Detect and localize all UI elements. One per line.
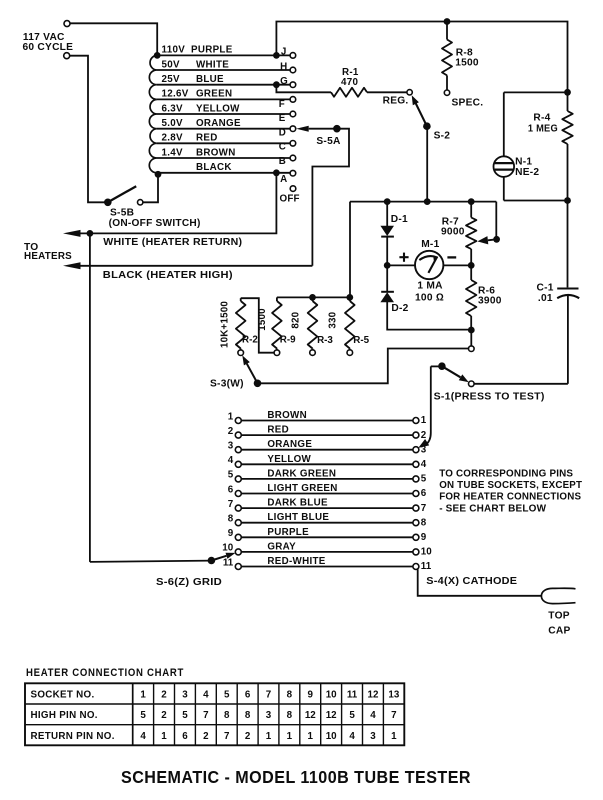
svg-text:7: 7 [203, 710, 209, 721]
svg-text:REG.: REG. [383, 95, 409, 106]
svg-text:RED: RED [267, 425, 289, 436]
svg-text:6: 6 [245, 690, 251, 701]
svg-text:BROWN: BROWN [267, 410, 307, 421]
svg-text:1 MA: 1 MA [417, 281, 443, 292]
svg-text:F: F [279, 99, 285, 110]
svg-text:4: 4 [140, 731, 146, 742]
svg-text:3: 3 [182, 690, 188, 701]
svg-text:4: 4 [349, 731, 355, 742]
svg-text:BLUE: BLUE [196, 74, 224, 85]
svg-text:2: 2 [421, 430, 427, 441]
svg-text:3: 3 [370, 731, 376, 742]
svg-text:6: 6 [421, 488, 427, 499]
svg-text:1500: 1500 [455, 57, 479, 68]
svg-text:ORANGE: ORANGE [267, 439, 312, 450]
svg-text:PURPLE: PURPLE [191, 45, 233, 56]
svg-text:110V: 110V [162, 45, 186, 56]
svg-text:DARK GREEN: DARK GREEN [267, 468, 336, 479]
svg-text:5.0V: 5.0V [162, 118, 184, 129]
svg-text:S-4(X) CATHODE: S-4(X) CATHODE [426, 576, 517, 587]
svg-text:S-5A: S-5A [316, 136, 341, 147]
svg-text:470: 470 [341, 77, 358, 88]
svg-text:WHITE: WHITE [196, 59, 229, 70]
svg-text:2: 2 [203, 731, 209, 742]
svg-text:PURPLE: PURPLE [267, 527, 309, 538]
svg-text:D-1: D-1 [391, 214, 408, 225]
svg-text:6: 6 [228, 484, 234, 495]
svg-text:BROWN: BROWN [196, 147, 236, 158]
svg-text:6.3V: 6.3V [162, 103, 184, 114]
svg-text:E: E [279, 113, 286, 124]
svg-text:6: 6 [182, 731, 188, 742]
svg-text:GREEN: GREEN [196, 89, 232, 100]
svg-text:YELLOW: YELLOW [196, 103, 240, 114]
svg-text:RED: RED [196, 133, 218, 144]
svg-text:10: 10 [326, 731, 337, 742]
svg-text:7: 7 [421, 503, 427, 514]
svg-text:11: 11 [421, 561, 432, 572]
svg-text:ON TUBE SOCKETS, EXCEPT: ON TUBE SOCKETS, EXCEPT [439, 480, 582, 491]
svg-text:9: 9 [228, 528, 234, 539]
svg-text:12.6V: 12.6V [162, 89, 189, 100]
svg-text:5: 5 [224, 690, 230, 701]
svg-text:25V: 25V [162, 74, 180, 85]
svg-text:10K+1500: 10K+1500 [219, 301, 230, 348]
svg-text:R-9: R-9 [280, 335, 296, 346]
svg-text:RETURN PIN NO.: RETURN PIN NO. [31, 731, 115, 742]
svg-text:HEATER CONNECTION CHART: HEATER CONNECTION CHART [26, 667, 184, 679]
svg-text:SOCKET NO.: SOCKET NO. [31, 690, 95, 701]
svg-text:12: 12 [305, 710, 316, 721]
svg-text:NE-2: NE-2 [515, 167, 539, 178]
svg-text:1500: 1500 [257, 308, 268, 331]
svg-text:4: 4 [421, 459, 427, 470]
svg-text:8: 8 [287, 710, 293, 721]
svg-text:RED-WHITE: RED-WHITE [267, 556, 325, 567]
svg-text:8: 8 [228, 514, 234, 525]
svg-text:13: 13 [388, 690, 399, 701]
svg-text:TO CORRESPONDING PINS: TO CORRESPONDING PINS [439, 469, 573, 480]
svg-text:12: 12 [326, 710, 337, 721]
svg-text:7: 7 [391, 710, 397, 721]
svg-text:DARK BLUE: DARK BLUE [267, 498, 328, 509]
svg-text:S-1(PRESS TO TEST): S-1(PRESS TO TEST) [434, 391, 545, 402]
svg-text:A: A [280, 174, 287, 185]
svg-text:BLACK: BLACK [196, 162, 232, 173]
svg-text:10: 10 [222, 543, 233, 554]
svg-text:1 MEG: 1 MEG [528, 123, 558, 134]
svg-text:5: 5 [421, 474, 427, 485]
svg-text:TOP: TOP [548, 611, 570, 622]
svg-text:11: 11 [223, 557, 234, 568]
svg-text:2: 2 [161, 690, 167, 701]
svg-text:8: 8 [224, 710, 230, 721]
svg-text:50V: 50V [162, 59, 180, 70]
svg-text:330: 330 [328, 311, 339, 328]
svg-text:G: G [280, 76, 288, 87]
svg-text:HIGH PIN NO.: HIGH PIN NO. [31, 710, 98, 721]
svg-text:CAP: CAP [548, 626, 570, 637]
svg-text:1: 1 [161, 731, 167, 742]
svg-text:4: 4 [203, 690, 209, 701]
svg-text:100 Ω: 100 Ω [415, 293, 444, 304]
svg-text:11: 11 [347, 690, 358, 701]
svg-text:8: 8 [287, 690, 293, 701]
svg-text:12: 12 [368, 690, 379, 701]
svg-text:HEATERS: HEATERS [24, 251, 72, 262]
svg-text:8: 8 [245, 710, 251, 721]
svg-text:D: D [279, 128, 286, 139]
svg-text:820: 820 [291, 311, 302, 328]
svg-text:3: 3 [228, 441, 234, 452]
svg-text:4: 4 [370, 710, 376, 721]
svg-text:2: 2 [245, 731, 251, 742]
svg-text:2.8V: 2.8V [162, 133, 184, 144]
svg-text:9000: 9000 [441, 226, 465, 237]
svg-text:3: 3 [266, 710, 272, 721]
svg-text:1: 1 [308, 731, 314, 742]
svg-text:1: 1 [391, 731, 397, 742]
svg-text:D-2: D-2 [391, 303, 408, 314]
svg-text:S-6(Z) GRID: S-6(Z) GRID [156, 577, 222, 588]
svg-text:7: 7 [228, 499, 234, 510]
svg-text:1: 1 [140, 690, 146, 701]
svg-text:R-4: R-4 [533, 113, 550, 124]
svg-text:B: B [279, 156, 286, 167]
svg-text:1: 1 [266, 731, 272, 742]
svg-text:SPEC.: SPEC. [452, 97, 484, 108]
svg-text:1: 1 [421, 415, 427, 426]
svg-text:7: 7 [224, 731, 230, 742]
svg-text:5: 5 [140, 710, 146, 721]
svg-text:.01: .01 [538, 293, 553, 304]
svg-text:2: 2 [228, 426, 234, 437]
svg-text:SCHEMATIC - MODEL 1100B TUBE T: SCHEMATIC - MODEL 1100B TUBE TESTER [121, 767, 471, 787]
svg-text:1: 1 [287, 731, 293, 742]
svg-text:S-3(W): S-3(W) [210, 379, 244, 390]
svg-text:3900: 3900 [478, 296, 502, 307]
svg-text:WHITE (HEATER RETURN): WHITE (HEATER RETURN) [103, 237, 242, 248]
svg-text:LIGHT GREEN: LIGHT GREEN [267, 483, 337, 494]
svg-text:- SEE CHART BELOW: - SEE CHART BELOW [439, 503, 546, 514]
svg-text:3: 3 [421, 444, 427, 455]
svg-text:H: H [280, 62, 287, 73]
svg-text:C: C [279, 141, 286, 152]
svg-text:10: 10 [421, 547, 432, 558]
svg-text:S-2: S-2 [434, 130, 451, 141]
svg-text:5: 5 [182, 710, 188, 721]
svg-text:9: 9 [308, 690, 314, 701]
svg-text:1.4V: 1.4V [162, 147, 184, 158]
svg-text:8: 8 [421, 517, 427, 528]
svg-text:4: 4 [228, 455, 234, 466]
svg-text:BLACK (HEATER HIGH): BLACK (HEATER HIGH) [103, 270, 233, 281]
svg-text:10: 10 [326, 690, 337, 701]
svg-text:GRAY: GRAY [267, 541, 296, 552]
svg-text:R-2: R-2 [242, 335, 258, 346]
svg-text:J: J [281, 47, 286, 58]
svg-text:5: 5 [349, 710, 355, 721]
svg-text:1: 1 [228, 411, 234, 422]
svg-text:60 CYCLE: 60 CYCLE [23, 42, 74, 53]
svg-text:R-3: R-3 [317, 335, 333, 346]
svg-text:M-1: M-1 [421, 239, 439, 250]
svg-text:(ON-OFF SWITCH): (ON-OFF SWITCH) [109, 218, 201, 229]
svg-text:2: 2 [161, 710, 167, 721]
svg-text:YELLOW: YELLOW [267, 454, 311, 465]
svg-text:5: 5 [228, 470, 234, 481]
svg-text:7: 7 [266, 690, 272, 701]
svg-text:OFF: OFF [280, 194, 300, 205]
svg-text:9: 9 [421, 532, 427, 543]
svg-text:FOR HEATER CONNECTIONS: FOR HEATER CONNECTIONS [439, 492, 581, 503]
svg-text:ORANGE: ORANGE [196, 118, 241, 129]
svg-text:R-5: R-5 [353, 335, 369, 346]
svg-text:LIGHT BLUE: LIGHT BLUE [267, 512, 329, 523]
